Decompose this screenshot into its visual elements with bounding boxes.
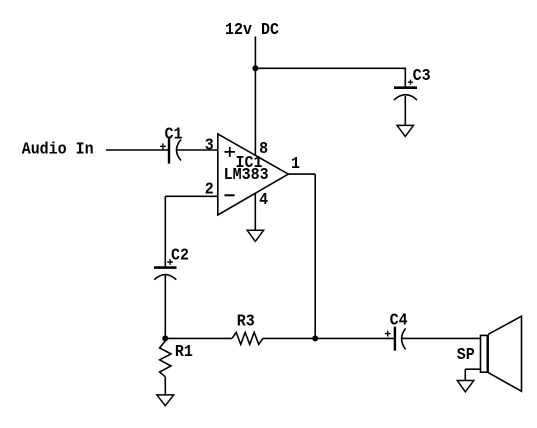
svg-text:1: 1 bbox=[291, 155, 300, 174]
wire V+ rail horizontal to C3 bbox=[255, 67, 405, 69]
wire op-amp pin 4 to ground bbox=[254, 193, 256, 230]
wire Audio In to C1 bbox=[106, 149, 168, 151]
plus mark (non-inverting input) bbox=[225, 147, 236, 157]
wire bottom node to R3 bbox=[165, 337, 232, 339]
minus mark (inverting input) bbox=[225, 194, 235, 196]
wire C3 to ground bbox=[404, 96, 406, 125]
capacitor C1 bbox=[160, 138, 181, 163]
wire C4 to speaker bbox=[402, 337, 481, 339]
svg-text:12v DC: 12v DC bbox=[225, 20, 279, 39]
capacitor C2 bbox=[154, 259, 177, 280]
svg-text:C2: C2 bbox=[171, 246, 189, 265]
wire pin 2 down to C2 bbox=[164, 196, 166, 266]
svg-text:R1: R1 bbox=[175, 342, 193, 361]
capacitor C4 bbox=[385, 327, 406, 351]
svg-text:C1: C1 bbox=[165, 125, 183, 144]
ground (pin 4) bbox=[247, 230, 263, 241]
wire output junction to C4 bbox=[315, 337, 394, 339]
ground (R1) bbox=[157, 395, 174, 406]
resistor R3 bbox=[232, 332, 263, 344]
svg-text:3: 3 bbox=[205, 136, 214, 155]
svg-text:R3: R3 bbox=[237, 312, 255, 331]
wire C3 top vertical bbox=[404, 68, 406, 87]
wire C2 to bottom node bbox=[164, 276, 166, 339]
speaker SP driver body bbox=[481, 335, 489, 372]
speaker SP driver right edge bbox=[487, 335, 489, 373]
ground (speaker) bbox=[457, 381, 474, 392]
wire V+ vertical from 12v DC to op-amp pin 8 bbox=[254, 37, 256, 156]
svg-text:C4: C4 bbox=[390, 311, 408, 330]
op-amp IC1 LM383 triangle bbox=[218, 134, 288, 215]
ground (C3) bbox=[397, 125, 414, 136]
svg-text:C3: C3 bbox=[413, 66, 431, 85]
resistor R1 bbox=[160, 341, 171, 377]
svg-text:4: 4 bbox=[259, 190, 268, 209]
wire C1 to op-amp pin 3 bbox=[177, 149, 218, 151]
junction output node bbox=[312, 335, 318, 341]
wire speaker to ground (horizontal) bbox=[465, 368, 480, 370]
wire op-amp output pin 1 horizontal bbox=[288, 173, 315, 175]
wire output down to bottom rail bbox=[314, 174, 316, 338]
wire R1 to ground bbox=[164, 377, 166, 395]
junction bottom-left node bbox=[162, 335, 168, 341]
wire pin 2 horizontal bbox=[165, 195, 218, 197]
svg-text:Audio In: Audio In bbox=[22, 140, 94, 159]
svg-text:SP: SP bbox=[457, 346, 475, 365]
capacitor C3 bbox=[394, 80, 417, 100]
svg-text:LM383: LM383 bbox=[224, 166, 269, 185]
wire R3 to output junction bbox=[263, 337, 315, 339]
speaker SP cone bbox=[488, 316, 521, 391]
junction V+ rail bbox=[252, 65, 258, 71]
wire speaker ground drop bbox=[464, 369, 466, 380]
